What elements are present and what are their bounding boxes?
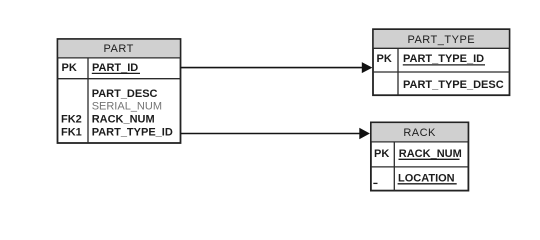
underline PART_TYPE_ID [403,64,485,66]
svg-text:PK: PK [377,53,392,65]
PART key/attribute separator [58,78,181,80]
entity PART frame [58,39,181,143]
svg-text:PART_ID: PART_ID [92,62,138,74]
svg-text:RACK: RACK [403,127,436,139]
svg-text:RACK_NUM: RACK_NUM [92,114,155,126]
arrowhead into RACK [359,128,370,140]
svg-text:PK: PK [374,148,389,160]
PART header separator [58,57,181,59]
RACK column separator [393,142,395,191]
arrowhead into PART_TYPE [362,62,373,73]
RACK header separator [371,141,469,143]
svg-text:FK2: FK2 [61,114,82,126]
entity RACK frame [371,122,469,190]
underline LOCATION [398,183,457,185]
underline RACK_NUM [399,158,460,160]
entity PART_TYPE frame [373,29,510,95]
entity RACK header [372,123,468,141]
underscore mark (RACK second row) [373,182,377,184]
entity PART_TYPE header [374,30,509,48]
svg-text:FK1: FK1 [61,127,82,139]
svg-text:SERIAL_NUM: SERIAL_NUM [92,101,162,113]
PART_TYPE header separator [373,47,510,49]
svg-text:PART_TYPE_DESC: PART_TYPE_DESC [403,79,504,91]
svg-text:PART_TYPE_ID: PART_TYPE_ID [92,127,173,139]
entity PART header [58,40,179,58]
PART_TYPE column separator [397,48,399,95]
svg-text:PART_DESC: PART_DESC [92,88,158,100]
svg-text:PART: PART [104,43,134,55]
svg-text:PART_TYPE_ID: PART_TYPE_ID [403,53,484,65]
svg-text:LOCATION: LOCATION [398,173,455,185]
svg-text:PK: PK [62,62,77,74]
svg-text:RACK_NUM: RACK_NUM [399,148,462,160]
wire PART to RACK [181,133,361,135]
svg-text:PART_TYPE: PART_TYPE [407,34,475,46]
PART_TYPE key/attribute separator [373,71,510,73]
RACK row separator [371,166,469,168]
wire PART to PART_TYPE [181,67,364,69]
PART column separator [87,58,89,143]
underline PART_ID [92,72,140,74]
